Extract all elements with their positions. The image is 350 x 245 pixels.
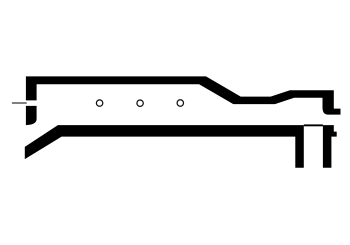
upper-left lower stub block with curved tip	[26, 106, 37, 125]
centerline tick	[12, 102, 27, 103]
thin top edge line across slot between legs	[304, 124, 323, 126]
upper rail profile (top flange with hook end)	[26, 76, 341, 114]
hole 2	[137, 100, 143, 106]
hole 1	[96, 100, 102, 106]
lower rail right end piece (block with tab and leg B)	[323, 125, 337, 168]
hole 3	[177, 100, 183, 106]
lower rail profile left part (bottom bar with leg A)	[25, 125, 304, 168]
